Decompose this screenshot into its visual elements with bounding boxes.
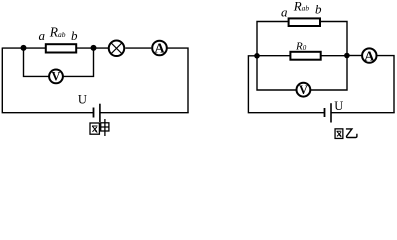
wire: fig-jia battery to right corner — [100, 112, 189, 114]
wire: fig-jia ammeter to right side down — [167, 48, 188, 113]
label U (fig-jia) — [78, 93, 87, 107]
caption 图乙 glyph 图 — [335, 129, 343, 139]
voltmeter V1 (fig-jia) — [49, 70, 63, 84]
wire: fig-jia resistor to lamp — [77, 47, 108, 49]
battery cell (fig-yi): short plate — [324, 108, 326, 117]
wire: fig-yi top branch right down to node — [320, 22, 347, 56]
svg-text:A: A — [364, 49, 375, 64]
wire: fig-jia top wire left section — [2, 47, 45, 49]
svg-text:a: a — [39, 28, 46, 43]
svg-text:A: A — [154, 42, 165, 57]
wire: fig-yi top branch with corners — [257, 22, 288, 56]
label U (fig-yi) — [334, 99, 343, 113]
label R_ab (fig-jia) — [49, 25, 66, 40]
node dot left (fig-yi) — [254, 53, 260, 59]
svg-text:U: U — [78, 93, 87, 107]
svg-text:Rab: Rab — [293, 0, 310, 13]
label R_ab (fig-yi) — [293, 0, 310, 13]
battery cell (fig-yi): long plate — [330, 103, 332, 122]
caption 图甲 glyph 甲 — [101, 119, 109, 136]
node dot left (fig-jia) — [21, 45, 27, 51]
resistor R0 (fig-yi) — [290, 52, 320, 60]
svg-text:R0: R0 — [295, 41, 307, 53]
wire: fig-jia lamp to ammeter — [125, 47, 151, 49]
label a (fig-jia) — [39, 28, 46, 43]
wire: fig-jia voltmeter branch right — [63, 48, 93, 76]
wire: fig-jia voltmeter branch left — [24, 48, 49, 76]
svg-text:b: b — [71, 28, 78, 43]
wire: fig-yi node to ammeter — [347, 55, 362, 57]
label b (fig-yi) — [315, 2, 322, 17]
svg-text:a: a — [281, 5, 288, 20]
wire: fig-yi left stub and outer left side to battery — [248, 56, 324, 113]
lamp L1 — [109, 41, 125, 57]
label b (fig-jia) — [71, 28, 78, 43]
resistor R_ab (fig-jia) — [46, 44, 76, 52]
svg-text:Rab: Rab — [49, 25, 66, 40]
label a (fig-yi) — [281, 5, 288, 20]
caption 图甲 glyph 图 — [90, 123, 99, 134]
wire: fig-jia left side and bottom to battery — [2, 48, 93, 113]
node dot right (fig-yi) — [344, 53, 350, 59]
svg-text:V: V — [299, 83, 308, 97]
node dot right (fig-jia) — [91, 45, 97, 51]
caption 图乙 glyph 乙 — [346, 129, 357, 138]
ammeter A1 (fig-jia) — [152, 41, 167, 57]
voltmeter V2 (fig-yi) — [297, 83, 311, 97]
wire: fig-yi R0 branch right — [321, 55, 347, 57]
wire: fig-yi voltmeter branch right — [311, 56, 347, 91]
battery cell (fig-jia): long plate — [99, 104, 101, 122]
label R_0 (fig-yi) — [295, 41, 307, 53]
resistor R_ab (fig-yi) — [289, 18, 320, 26]
wire: fig-yi R0 branch left — [257, 55, 290, 57]
battery cell (fig-jia): short plate — [93, 108, 95, 118]
wire: fig-yi ammeter to right side down — [377, 56, 394, 113]
ammeter A2 (fig-yi) — [362, 48, 376, 64]
svg-text:V: V — [52, 70, 61, 84]
wire: fig-yi voltmeter branch left — [257, 56, 297, 90]
svg-text:U: U — [334, 99, 343, 113]
wire: fig-yi battery to right corner — [331, 112, 395, 114]
svg-text:b: b — [315, 2, 322, 17]
